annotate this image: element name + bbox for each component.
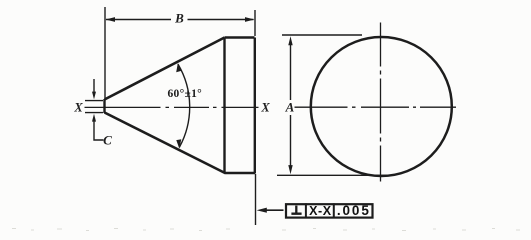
dimension A bottom extension line [277, 174, 391, 176]
angle dimension arc [178, 64, 190, 147]
feature control frame cell dividers [306, 203, 334, 218]
cone top slant edge [105, 38, 225, 100]
dimension B left arrowhead [106, 17, 116, 22]
feature control frame box [286, 204, 373, 217]
svg-text:X: X [73, 100, 83, 114]
svg-text:B: B [174, 11, 184, 26]
svg-text:C: C [103, 133, 112, 148]
angle arc top arrowhead [176, 63, 181, 72]
dimension A line [290, 42, 292, 168]
angle arc bottom arrowhead [176, 139, 181, 148]
dimension C top extension line [85, 100, 103, 102]
feature control frame leader arrow [261, 209, 284, 211]
svg-text:A: A [285, 100, 295, 115]
dimension C lower arrow (pointing up) and leader [94, 121, 104, 140]
dimension B line [106, 19, 254, 21]
base cylinder bottom edge [225, 172, 256, 174]
svg-text:.005: .005 [337, 203, 371, 218]
cone tip flat edge [103, 99, 105, 113]
svg-text:60°±1°: 60°±1° [168, 88, 203, 100]
dimension C upper arrow (pointing down) [93, 79, 95, 92]
circle horizontal centerline [295, 106, 457, 108]
datum extension line to feature control frame [255, 174, 257, 225]
end view circle [311, 37, 452, 176]
cone bottom slant edge [105, 113, 226, 174]
dimension B left extension line [104, 7, 106, 98]
scan noise dots along bottom [12, 229, 520, 231]
dimension A top extension line [282, 34, 362, 36]
svg-text:X: X [260, 101, 270, 115]
dimension B right extension line [254, 10, 256, 36]
centerline X-X of side view [85, 106, 260, 108]
dimension B right arrowhead [245, 17, 255, 22]
dimension A top arrowhead [288, 36, 292, 45]
dimension A bottom arrowhead [288, 165, 292, 174]
base cylinder top edge [225, 36, 255, 38]
perpendicularity symbol [291, 206, 301, 214]
svg-text:X-X: X-X [309, 204, 332, 218]
circle vertical centerline [380, 23, 382, 182]
base cylinder left edge [223, 38, 225, 174]
dimension C bottom extension line [85, 112, 103, 114]
base cylinder right edge [254, 38, 256, 174]
